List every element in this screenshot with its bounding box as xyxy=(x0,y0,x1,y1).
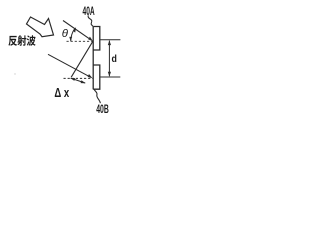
svg-text:d: d xyxy=(112,53,117,65)
dashed baseline at 40B xyxy=(64,77,93,79)
delta-x arrowhead right xyxy=(81,80,86,83)
svg-text:Δ x: Δ x xyxy=(54,86,69,100)
label 反射波 (reflected wave) xyxy=(8,35,35,46)
svg-text:40B: 40B xyxy=(96,104,109,116)
dashed normal line at 40A xyxy=(67,40,93,42)
antenna element 40B (bottom rectangle) xyxy=(93,65,100,89)
antenna element 40A (top rectangle) xyxy=(93,27,100,51)
d dimension vertical double arrow xyxy=(108,41,110,77)
delta-x dimension line xyxy=(71,78,86,83)
angle arc theta xyxy=(71,29,75,42)
d dimension top line xyxy=(100,39,120,41)
d dimension bottom line xyxy=(100,76,120,78)
arrowhead ray 2 xyxy=(88,74,93,78)
svg-text:θ: θ xyxy=(62,28,69,40)
arc arrowhead lower xyxy=(69,37,72,42)
arc arrowhead upper xyxy=(73,27,76,32)
antenna common vertical line xyxy=(92,26,94,89)
faint speck xyxy=(14,73,15,74)
d arrowhead down xyxy=(108,72,111,77)
block arrow (incoming reflected wave) xyxy=(27,17,54,37)
delta-x arrowhead left xyxy=(70,78,75,81)
incident ray to 40A xyxy=(63,21,90,40)
incident ray to 40B xyxy=(48,54,90,76)
arrowhead ray 1 xyxy=(88,37,93,42)
leader 40B xyxy=(94,90,100,104)
d arrowhead up xyxy=(108,40,111,45)
leader 40A xyxy=(88,15,93,26)
wavefront perpendicular from 40A xyxy=(71,41,93,77)
